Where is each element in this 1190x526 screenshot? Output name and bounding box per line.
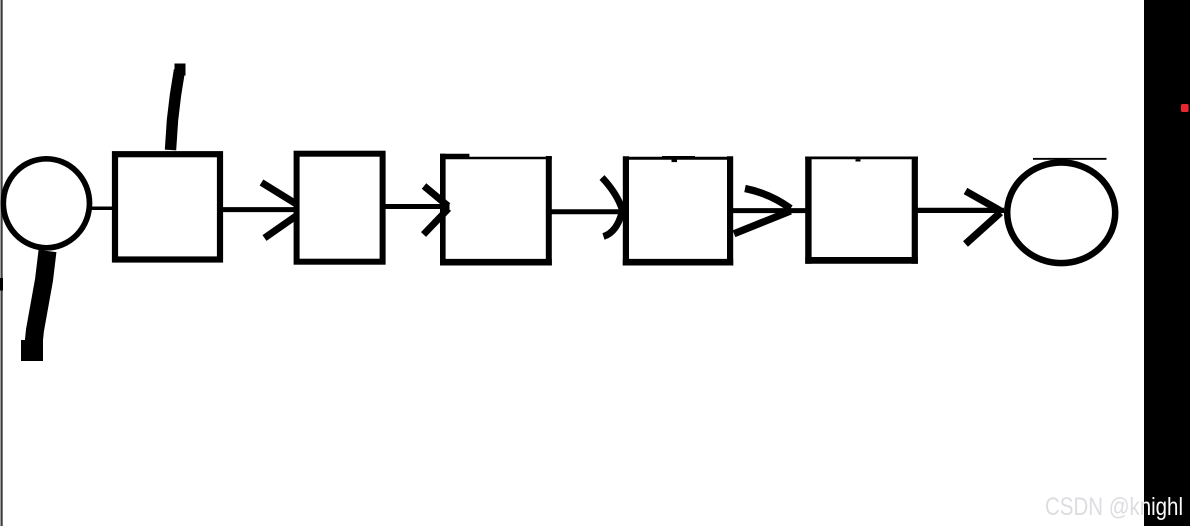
- pen stroke below start circle: [33, 251, 48, 349]
- box 5 top tick: [856, 159, 861, 161]
- box 4 bottom edge: [623, 259, 733, 266]
- pen stroke top cap: [175, 64, 186, 76]
- wire box 2 to box 3: [384, 204, 450, 209]
- box 3 right edge: [546, 156, 552, 266]
- arrowhead 2 lower stroke: [424, 209, 449, 235]
- box 5 top edge: [805, 157, 918, 160]
- pen stroke above box 1: [171, 70, 180, 150]
- wire box 1 to box 2: [221, 207, 295, 212]
- arrowhead 3 upper curved stroke: [602, 178, 623, 211]
- arrowhead 5 lower stroke: [966, 213, 1001, 245]
- right sidebar: [1144, 0, 1190, 526]
- box 5 bottom edge: [805, 257, 918, 264]
- box 4 top edge: [623, 157, 733, 160]
- wire box 3 to box 4: [550, 209, 624, 214]
- box 4 top tick: [672, 160, 678, 163]
- box 4 top overdraw segment: [662, 156, 695, 159]
- left border black tick: [0, 278, 3, 291]
- wire start circle to box 1: [91, 206, 115, 210]
- arrowhead 2 upper stroke: [424, 186, 448, 206]
- box 5 right edge: [912, 157, 918, 264]
- arrowhead 4 lower stroke: [734, 211, 791, 234]
- box 1: [115, 154, 220, 259]
- end circle: [1007, 163, 1115, 264]
- arrowhead 5 upper stroke: [966, 191, 1001, 211]
- arrowhead 3 lower curved stroke: [604, 212, 623, 237]
- box 5 left edge: [805, 157, 811, 264]
- box 3 top edge: [445, 157, 552, 159]
- arrowhead 1 lower stroke: [265, 216, 297, 238]
- box 3 top-left thick segment: [440, 154, 469, 158]
- wire box 5 to end circle: [916, 208, 1004, 213]
- pen stroke bottom blob: [21, 340, 43, 361]
- box 3 bottom edge: [440, 259, 552, 266]
- thin line above end circle: [1033, 158, 1107, 160]
- box 2: [297, 154, 383, 262]
- start circle: [3, 159, 89, 248]
- arrowhead 1 upper stroke: [262, 183, 296, 204]
- left border line: [1, 0, 3, 526]
- arrowhead 4 upper stroke: [745, 189, 791, 209]
- box 4 right edge: [727, 156, 733, 265]
- wire box 4 to box 5: [732, 208, 810, 213]
- red dot on sidebar: [1181, 104, 1189, 112]
- box 3 left edge: [440, 154, 446, 266]
- box 4 left edge: [623, 156, 629, 265]
